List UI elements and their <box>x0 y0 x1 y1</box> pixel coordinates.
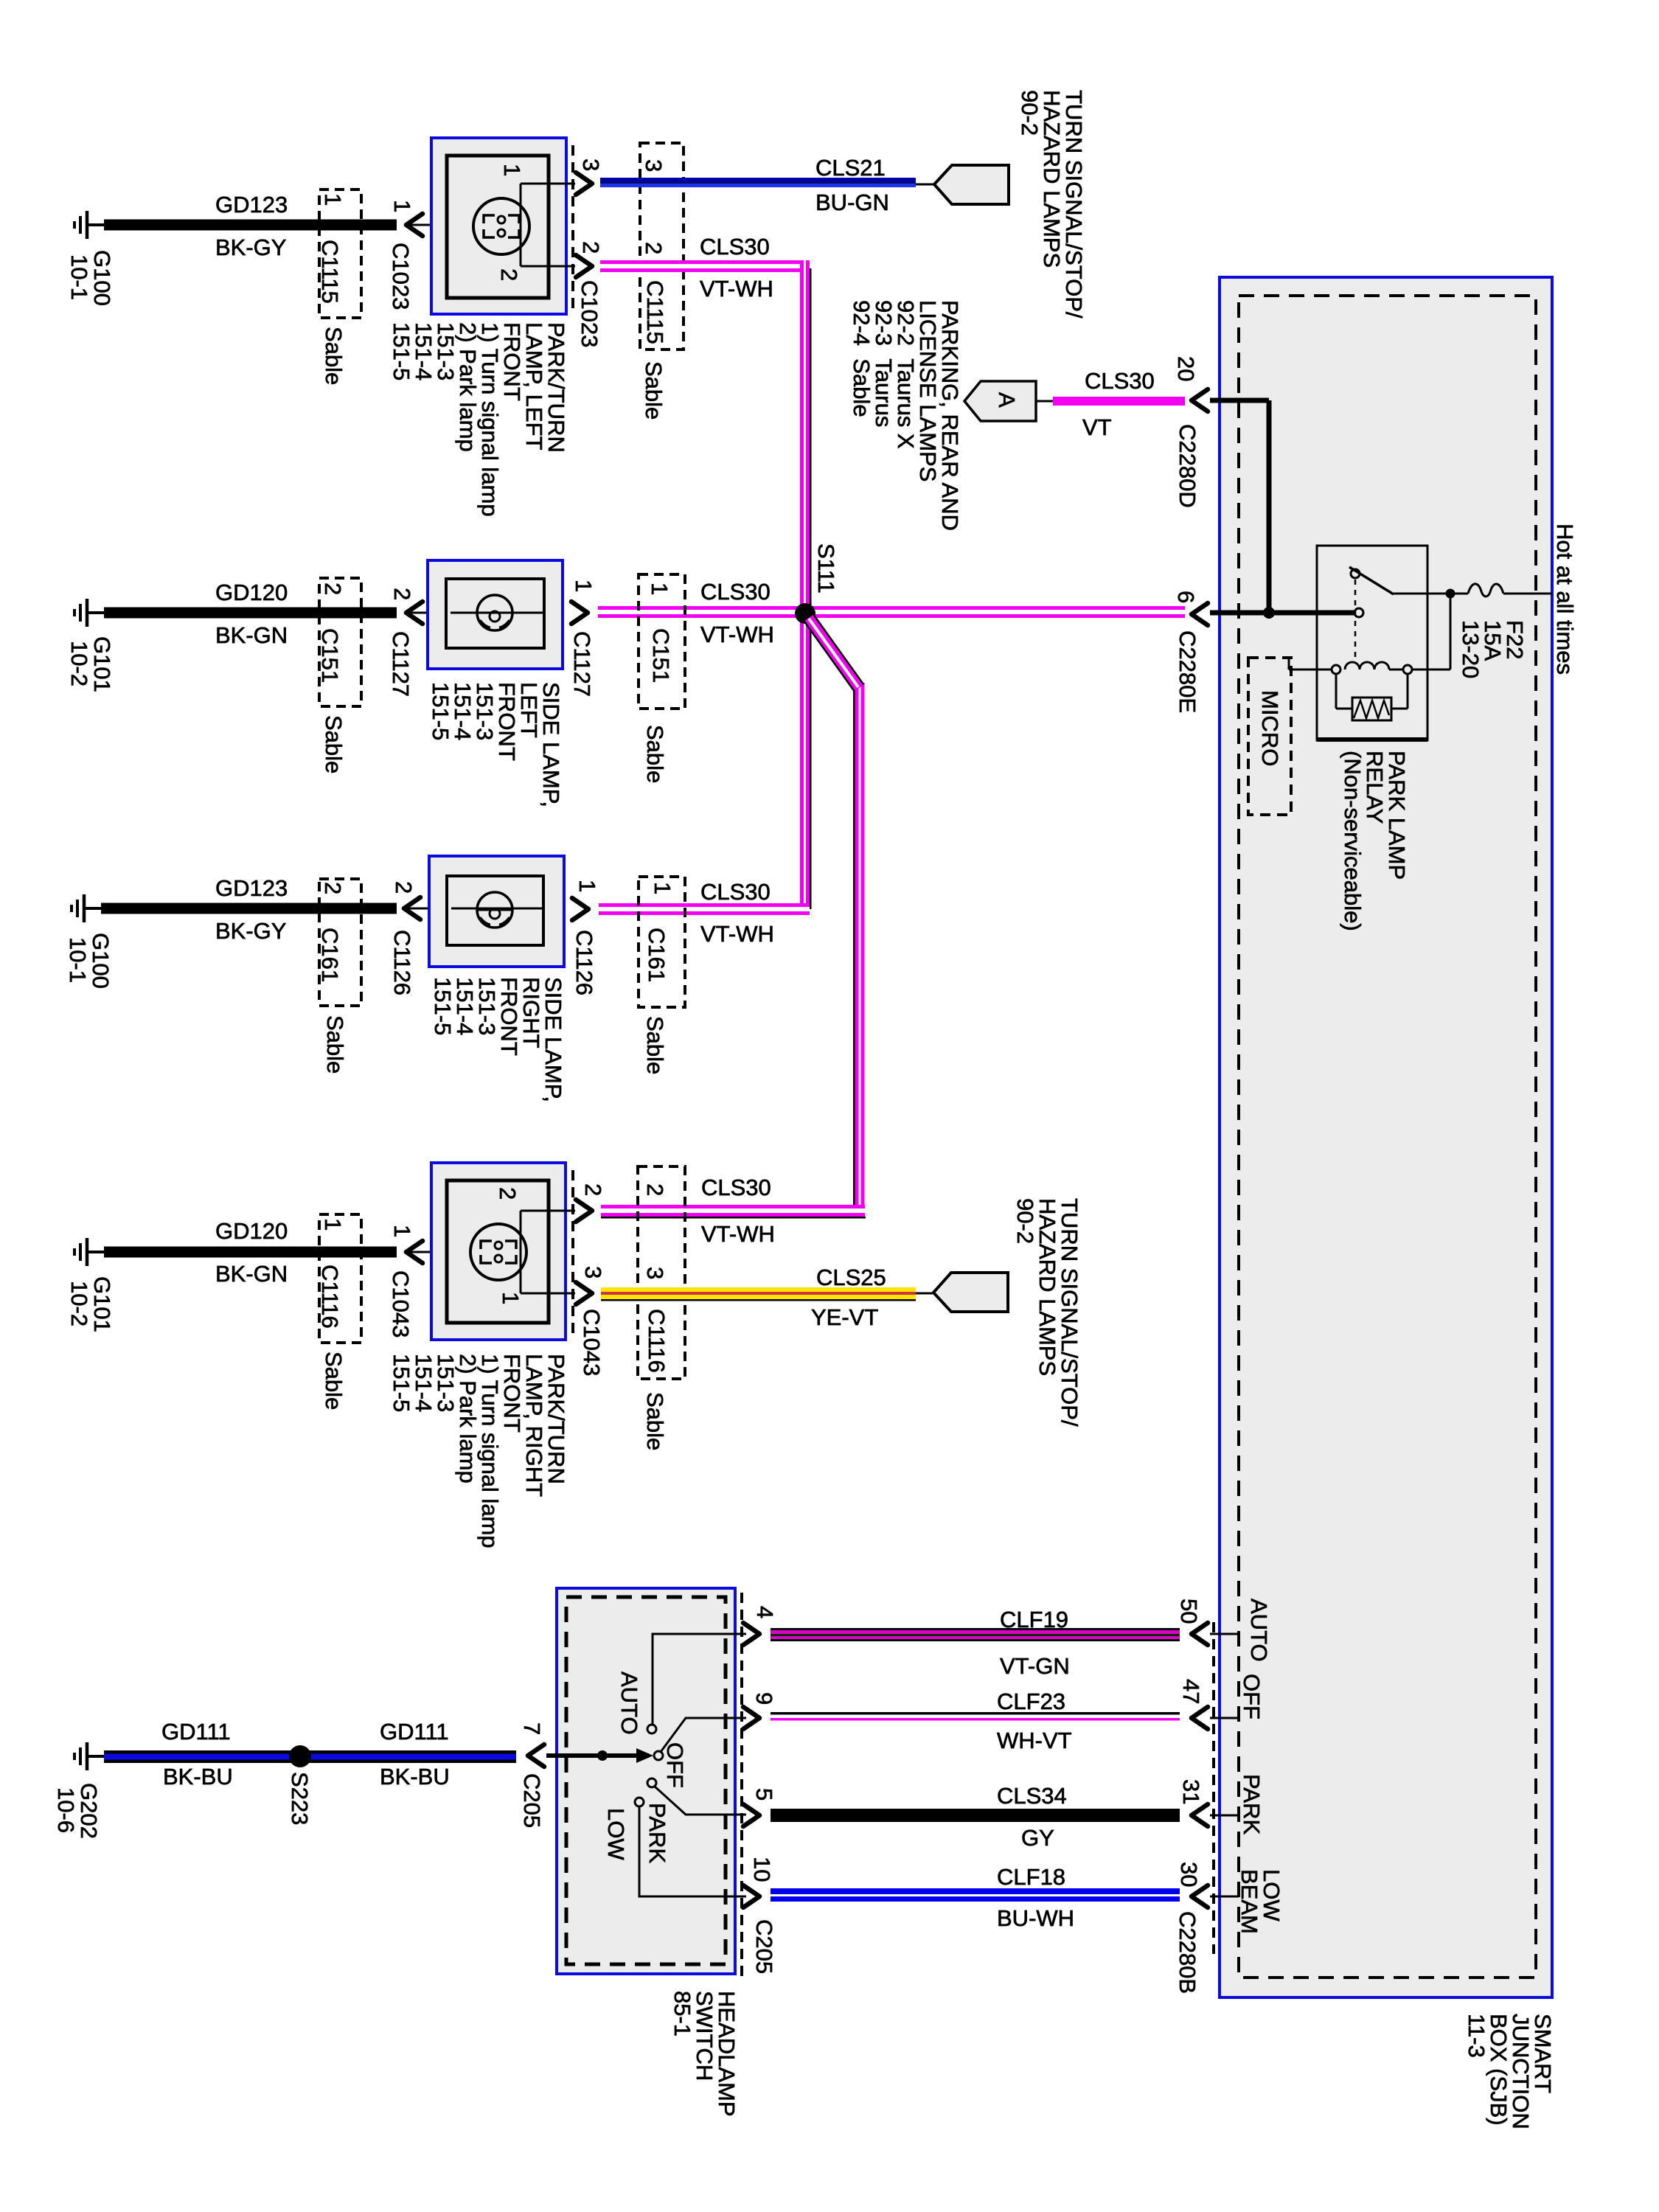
svg-text:1: 1 <box>498 1292 524 1304</box>
svg-text:BK-BU: BK-BU <box>380 1764 450 1790</box>
junction dot pin20/pin6 <box>1263 607 1275 619</box>
svg-text:151-5: 151-5 <box>428 682 453 740</box>
wire GD123 BK-GY row1 <box>104 220 397 231</box>
wire GD120 BK-GN row4 <box>104 1247 397 1258</box>
off-page connector flag A <box>964 381 1036 421</box>
splice S223 <box>289 1745 311 1767</box>
svg-text:151-5: 151-5 <box>389 322 414 380</box>
svg-text:C2280E: C2280E <box>1175 630 1200 713</box>
svg-text:31: 31 <box>1178 1779 1204 1804</box>
svg-text:Sable: Sable <box>642 1392 668 1450</box>
pin 3 arrow <box>576 173 592 195</box>
pin 6 arrow into SJB <box>1192 603 1208 625</box>
svg-text:CLF19: CLF19 <box>1000 1607 1068 1632</box>
off-page connector flag turn signal bottom <box>916 1293 933 1295</box>
svg-text:1: 1 <box>389 1225 415 1237</box>
svg-text:BU-GN: BU-GN <box>815 189 889 215</box>
svg-text:GD111: GD111 <box>161 1719 231 1745</box>
connector C1116 dashed box left <box>319 1214 361 1343</box>
lamp internal bracket to pins <box>521 1211 575 1293</box>
svg-text:47: 47 <box>1178 1679 1204 1704</box>
svg-text:30: 30 <box>1176 1862 1202 1887</box>
svg-text:GD111: GD111 <box>380 1719 449 1745</box>
SJB pin 50 arrow AUTO <box>1192 1623 1208 1645</box>
svg-text:BK-GN: BK-GN <box>215 622 288 648</box>
wire GD111 BK-BU <box>104 1750 516 1754</box>
svg-text:GD120: GD120 <box>215 580 288 605</box>
wire GD123 BK-GY row3 <box>101 903 397 914</box>
svg-text:C1116: C1116 <box>644 1309 669 1373</box>
svg-text:CLS30: CLS30 <box>1085 368 1155 394</box>
ground G100 <box>72 894 101 922</box>
SJB pin 31 arrow PARK <box>1192 1804 1208 1826</box>
bulb single filament row3 <box>477 892 512 928</box>
svg-text:3: 3 <box>642 1267 668 1279</box>
connector C151 dashed box left <box>319 578 361 706</box>
svg-text:13-20: 13-20 <box>1458 620 1484 678</box>
svg-text:2: 2 <box>495 1187 521 1200</box>
svg-text:C1126: C1126 <box>571 930 597 995</box>
svg-text:VT-WH: VT-WH <box>700 622 774 647</box>
splice S111 <box>795 603 815 624</box>
svg-text:1: 1 <box>650 882 675 894</box>
svg-text:9: 9 <box>751 1692 777 1705</box>
svg-text:C1115: C1115 <box>642 280 668 344</box>
svg-text:G100: G100 <box>88 933 114 989</box>
connector C2280B dashed line <box>1212 1622 1215 1954</box>
relay resistor <box>1352 698 1391 720</box>
svg-text:2: 2 <box>320 882 346 894</box>
bulb single filament row2 <box>477 595 512 630</box>
svg-text:2: 2 <box>391 881 417 894</box>
svg-text:C1126: C1126 <box>389 930 415 995</box>
wire pin20 internal <box>1210 400 1269 613</box>
svg-text:2: 2 <box>642 1183 668 1196</box>
switch blade to OFF/pin9 <box>661 1718 746 1752</box>
wire CLF18 BU-WH <box>771 1888 1180 1894</box>
svg-text:BK-GY: BK-GY <box>215 918 286 944</box>
svg-text:5: 5 <box>751 1788 777 1801</box>
svg-text:3: 3 <box>580 1266 606 1279</box>
MICRO dashed box <box>1248 658 1291 815</box>
svg-text:92-4 Sable: 92-4 Sable <box>849 300 874 417</box>
svg-text:C1127: C1127 <box>569 631 595 697</box>
svg-text:Sable: Sable <box>322 1015 348 1074</box>
park/turn lamp left front box <box>431 138 566 314</box>
svg-text:C1043: C1043 <box>388 1270 414 1338</box>
svg-text:WH-VT: WH-VT <box>997 1728 1072 1753</box>
smart junction box SJB outline <box>1220 277 1552 1997</box>
svg-text:G101: G101 <box>89 636 115 692</box>
pin 20 arrow into SJB <box>1192 389 1208 411</box>
pin 3 arrow <box>576 1282 592 1304</box>
svg-text:1: 1 <box>647 582 672 595</box>
svg-text:Hot at all times: Hot at all times <box>1552 524 1578 675</box>
svg-text:(Non-serviceable): (Non-serviceable) <box>1340 751 1366 931</box>
AUTO contact and wire to pin4 <box>647 1725 656 1733</box>
svg-text:1: 1 <box>574 880 600 892</box>
svg-text:CLS30: CLS30 <box>700 234 770 260</box>
side lamp right front box <box>429 856 564 967</box>
svg-text:VT-GN: VT-GN <box>1000 1653 1070 1679</box>
ground G101 <box>74 599 104 627</box>
svg-text:CLS30: CLS30 <box>700 879 771 905</box>
svg-text:C1115: C1115 <box>317 240 343 304</box>
pin 4 arrow <box>743 1623 759 1645</box>
svg-text:YE-VT: YE-VT <box>811 1304 878 1330</box>
relay coil <box>1332 665 1340 674</box>
wire CLS30 VT solid <box>1053 397 1185 406</box>
off-page connector flag turn signal top <box>916 184 934 186</box>
svg-text:BU-WH: BU-WH <box>997 1905 1074 1931</box>
svg-text:C205: C205 <box>751 1919 777 1974</box>
svg-text:C1023: C1023 <box>388 243 414 310</box>
wire pin6 internal to relay <box>1210 611 1355 616</box>
svg-text:BK-BU: BK-BU <box>163 1764 233 1790</box>
SJB pin 47 arrow OFF <box>1192 1707 1208 1729</box>
svg-text:1: 1 <box>389 200 415 212</box>
svg-text:90-2: 90-2 <box>1012 1198 1038 1244</box>
junction dot relay/fuse <box>1446 589 1455 599</box>
connector C161 dashed box right <box>639 877 685 1007</box>
svg-text:GD123: GD123 <box>215 192 288 218</box>
svg-text:LOW: LOW <box>603 1808 629 1860</box>
pin 2 arrow <box>576 255 592 277</box>
svg-text:3: 3 <box>641 159 667 172</box>
svg-text:2: 2 <box>320 582 346 595</box>
svg-text:85-1: 85-1 <box>669 1991 695 2037</box>
svg-text:C151: C151 <box>648 628 674 683</box>
svg-text:VT: VT <box>1082 414 1112 440</box>
svg-text:AUTO: AUTO <box>1246 1599 1272 1662</box>
svg-text:CLS25: CLS25 <box>816 1265 886 1290</box>
svg-text:Sable: Sable <box>642 725 668 783</box>
relay common contact <box>1354 608 1363 617</box>
wire CLF23 WH-VT <box>771 1712 1180 1715</box>
svg-text:C2280B: C2280B <box>1175 1911 1200 1994</box>
LOW contact and wire to pin10 <box>635 1798 644 1806</box>
headlamp switch box <box>557 1588 735 1974</box>
pin 1 arrow right <box>572 898 588 920</box>
svg-text:6: 6 <box>1173 591 1199 603</box>
wire CLS30 vertical to row4 <box>853 683 855 1217</box>
svg-text:PARK: PARK <box>644 1803 670 1863</box>
svg-text:Sable: Sable <box>321 1352 347 1410</box>
svg-text:CLS21: CLS21 <box>815 155 886 181</box>
connector C151 dashed box right <box>639 574 685 709</box>
svg-text:MICRO: MICRO <box>1257 690 1283 766</box>
svg-text:11-3: 11-3 <box>1464 2014 1489 2058</box>
SJB pin 30 arrow LOW BEAM <box>1192 1885 1208 1907</box>
svg-text:Sable: Sable <box>321 327 347 385</box>
svg-text:CLS34: CLS34 <box>997 1783 1067 1809</box>
lamp internal bracket to pins <box>521 184 575 266</box>
wire CLS30 VT-WH row3 <box>599 903 810 907</box>
svg-text:151-5: 151-5 <box>389 1354 414 1412</box>
svg-text:C1043: C1043 <box>579 1309 605 1376</box>
svg-text:C161: C161 <box>317 928 343 982</box>
wire CLS30 VT-WH row4 <box>601 1205 865 1208</box>
svg-text:GY: GY <box>1021 1825 1054 1851</box>
svg-text:CLS30: CLS30 <box>701 1175 771 1200</box>
svg-text:Sable: Sable <box>641 361 667 420</box>
svg-text:BK-GN: BK-GN <box>215 1261 288 1287</box>
SJB inner dashed border <box>1239 296 1536 1978</box>
park/turn lamp right front box <box>431 1163 566 1340</box>
connector C205 dashed line right <box>740 1593 743 1976</box>
svg-text:1: 1 <box>571 580 597 592</box>
switch common pivot <box>654 1751 663 1760</box>
relay NO contact <box>1351 569 1360 578</box>
connector C1115 dashed box right <box>640 143 684 349</box>
svg-text:50: 50 <box>1176 1599 1202 1624</box>
svg-text:C2280D: C2280D <box>1175 424 1200 508</box>
connector C161 dashed box left <box>319 879 361 1006</box>
wire CLF19 VT-GN <box>771 1628 1180 1630</box>
svg-text:C1023: C1023 <box>577 280 602 347</box>
svg-text:2: 2 <box>580 1183 606 1196</box>
connector C1115 dashed box left <box>319 189 361 318</box>
connector C1116 dashed box right <box>638 1166 685 1379</box>
pin 5 arrow <box>743 1804 759 1826</box>
svg-text:VT-WH: VT-WH <box>700 921 774 947</box>
wire CLS30 vertical drop to S111 <box>800 260 804 909</box>
svg-text:1: 1 <box>320 193 346 206</box>
PARK contact and wire to pin5 <box>647 1778 656 1787</box>
svg-text:VT-WH: VT-WH <box>701 1221 775 1247</box>
svg-text:1: 1 <box>320 1218 346 1231</box>
wire CLS30 VT-WH row1 horizontal <box>600 260 810 264</box>
fuse F22 15A <box>1468 584 1503 597</box>
svg-text:S223: S223 <box>287 1772 313 1825</box>
pin 9 arrow <box>743 1707 759 1729</box>
svg-text:GD123: GD123 <box>215 875 288 901</box>
wire relay to fuse <box>1394 593 1468 595</box>
svg-text:10-2: 10-2 <box>66 641 92 686</box>
svg-text:Sable: Sable <box>321 715 347 773</box>
svg-text:3: 3 <box>578 159 604 171</box>
connector C1023 dashed line right <box>571 145 574 310</box>
svg-text:Sable: Sable <box>642 1016 668 1074</box>
svg-text:C161: C161 <box>644 928 669 982</box>
svg-text:A: A <box>994 392 1020 408</box>
bulb dual filament row4 <box>470 1224 526 1280</box>
relay box <box>1317 546 1427 740</box>
wire diagonal from S111 <box>809 618 859 688</box>
wire CLS21 BU-GN <box>600 178 916 182</box>
svg-text:151-5: 151-5 <box>430 977 456 1035</box>
svg-text:AUTO: AUTO <box>616 1672 642 1735</box>
pin 2 arrow <box>576 1200 592 1222</box>
svg-text:CLS30: CLS30 <box>700 579 771 605</box>
switch feed wire <box>546 1753 649 1758</box>
relay actuator dashed link <box>1354 580 1357 662</box>
svg-text:CLF18: CLF18 <box>997 1864 1065 1890</box>
svg-text:BK-GY: BK-GY <box>215 234 286 260</box>
svg-text:10: 10 <box>749 1857 775 1882</box>
svg-text:2: 2 <box>578 241 604 254</box>
svg-text:OFF: OFF <box>1239 1674 1265 1719</box>
wire CLS30 VT-WH row2 to S111 to SJB pin6 <box>598 606 1185 610</box>
svg-text:1: 1 <box>499 164 525 176</box>
svg-text:G202: G202 <box>76 1783 102 1839</box>
svg-text:VT-WH: VT-WH <box>700 276 773 302</box>
wire CLS34 GY <box>771 1809 1180 1822</box>
svg-text:2: 2 <box>641 242 667 254</box>
svg-text:OFF: OFF <box>662 1742 688 1788</box>
relay blade <box>1349 567 1394 594</box>
svg-text:90-2: 90-2 <box>1017 90 1043 136</box>
svg-text:10-1: 10-1 <box>65 937 91 983</box>
svg-text:BEAM: BEAM <box>1237 1869 1262 1934</box>
pin 7 arrow C205 <box>528 1745 544 1767</box>
svg-text:10-2: 10-2 <box>66 1281 92 1326</box>
ground G101 <box>74 1238 104 1266</box>
svg-text:G100: G100 <box>89 250 115 306</box>
ground G202 <box>74 1742 104 1770</box>
svg-text:C205: C205 <box>519 1773 545 1828</box>
svg-text:C1127: C1127 <box>388 631 414 697</box>
pin 1 arrow right <box>571 602 588 624</box>
svg-text:G101: G101 <box>89 1276 115 1332</box>
bulb dual filament row1 <box>473 198 529 254</box>
svg-text:CLF23: CLF23 <box>997 1688 1065 1714</box>
connector C1043 dashed line right <box>571 1170 574 1333</box>
ground G100 <box>74 211 104 239</box>
svg-text:7: 7 <box>519 1722 545 1735</box>
pin 10 arrow <box>743 1885 759 1907</box>
svg-text:GD120: GD120 <box>215 1218 288 1244</box>
svg-text:10-6: 10-6 <box>53 1787 79 1833</box>
svg-text:2: 2 <box>496 268 522 281</box>
svg-text:PARK: PARK <box>1239 1774 1265 1834</box>
svg-text:S111: S111 <box>813 543 839 594</box>
side lamp left front box <box>428 560 563 669</box>
svg-text:10-1: 10-1 <box>66 254 92 300</box>
wire GD120 BK-GN row2 <box>104 608 397 619</box>
svg-text:20: 20 <box>1173 356 1199 381</box>
svg-text:2: 2 <box>389 588 415 600</box>
svg-text:C151: C151 <box>317 628 343 683</box>
svg-text:C1116: C1116 <box>317 1265 343 1329</box>
wire CLS25 YE-VT <box>601 1287 916 1292</box>
svg-text:4: 4 <box>752 1606 778 1618</box>
